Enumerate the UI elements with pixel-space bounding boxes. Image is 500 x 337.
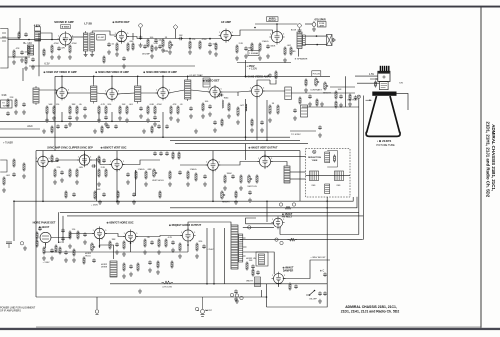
wire w h sig3 xyxy=(136,236,183,237)
resistor R18 xyxy=(199,39,207,49)
wire w bus A xyxy=(60,211,359,213)
svg-text:5: 5 xyxy=(68,90,69,92)
wire w box right long v xyxy=(326,197,328,307)
caption line 1 xyxy=(345,305,397,309)
callout c fil2 xyxy=(292,203,295,206)
svg-text:5: 5 xyxy=(118,91,119,93)
svg-text:1: 1 xyxy=(219,32,220,34)
capacitor C1x1 xyxy=(143,44,147,49)
ground G4j xyxy=(122,274,126,278)
svg-text:5: 5 xyxy=(127,33,128,35)
svg-text:6.3V: 6.3V xyxy=(44,62,50,66)
ground G1x1 xyxy=(150,54,154,58)
resistor R3f xyxy=(135,169,145,179)
resistor R15 xyxy=(162,37,168,47)
svg-text:DRIVE: DRIVE xyxy=(101,267,108,269)
ground G4L2 xyxy=(72,258,76,262)
resistor R crt neck xyxy=(349,93,351,101)
svg-text:5: 5 xyxy=(283,34,284,36)
svg-text:21D1, 21H1, 21J1 and Radio Ch.: 21D1, 21H1, 21J1 and Radio Ch. 5D2 xyxy=(341,310,400,314)
ground Gsw2 xyxy=(234,297,238,301)
svg-text:ADMIRAL CHASSIS 21B1, 21C1,: ADMIRAL CHASSIS 21B1, 21C1, xyxy=(345,305,397,309)
value vlin xyxy=(246,258,256,260)
ground G3x3 xyxy=(234,200,238,204)
svg-text:1: 1 xyxy=(206,162,207,164)
wire w opt top xyxy=(305,23,312,25)
ground Gac1 xyxy=(318,299,322,303)
label horiz output xyxy=(169,224,202,227)
peaking coil box xyxy=(285,87,292,100)
ground G3x4 xyxy=(248,198,252,202)
svg-text:.01: .01 xyxy=(111,44,115,46)
value v250 row3 xyxy=(91,205,99,207)
capacitor C2x2 xyxy=(106,124,110,128)
svg-text:+ TUNER: + TUNER xyxy=(3,143,13,145)
ground G1L3 xyxy=(31,65,35,69)
svg-text:WIDTH: WIDTH xyxy=(246,281,253,283)
capacitor C2x0 xyxy=(56,124,60,128)
wire w va plate up xyxy=(257,80,270,85)
tube V2 ratio det xyxy=(114,29,129,43)
node d bus7 xyxy=(245,76,247,78)
svg-text:7: 7 xyxy=(267,167,268,169)
ground G4l xyxy=(138,289,142,293)
cap left edge xyxy=(6,242,12,248)
resistor Rfb1 xyxy=(246,260,253,270)
ground G3g xyxy=(168,182,172,186)
callout yoke callout M xyxy=(313,150,316,154)
resistor Rle2 xyxy=(13,158,15,167)
value vRED xyxy=(291,51,296,53)
node d1c xyxy=(189,38,191,40)
interlock boxed label xyxy=(318,22,327,28)
label l85 xyxy=(34,25,41,28)
svg-text:⊕ 6SN7GT VERT OSC: ⊕ 6SN7GT VERT OSC xyxy=(101,147,127,150)
resistor R4 xyxy=(28,45,30,54)
tube V18 horiz afc xyxy=(123,229,138,243)
capacitor C2c xyxy=(22,102,26,107)
wire w r3 drop3 xyxy=(212,170,214,201)
svg-text:+ 250V: + 250V xyxy=(207,249,215,251)
ground G13 xyxy=(258,56,262,60)
svg-text:AF AMP: AF AMP xyxy=(221,20,231,24)
wire w heater1 xyxy=(29,65,195,67)
tube V3 AF amp xyxy=(219,28,234,42)
wire w fb to hv2 xyxy=(246,223,275,225)
value v1x xyxy=(142,54,150,56)
ground G3j xyxy=(223,186,227,190)
svg-text:5: 5 xyxy=(123,161,124,163)
svg-text:SOUND IF AMP: SOUND IF AMP xyxy=(54,20,74,24)
svg-text:7: 7 xyxy=(165,98,166,100)
resistor R3x1 xyxy=(65,190,67,198)
wire w box bottom2 xyxy=(267,306,328,308)
wire w4x3 xyxy=(130,242,132,252)
resistor R3m xyxy=(256,174,258,183)
value v2a xyxy=(1,93,7,97)
svg-text:5: 5 xyxy=(284,275,285,277)
wire w fly verticals2 xyxy=(213,228,215,284)
svg-text:⊕ 6K6GT VERT OUTPUT: ⊕ 6K6GT VERT OUTPUT xyxy=(248,147,278,150)
wire w g19 xyxy=(189,39,191,41)
wire w left h38 xyxy=(0,37,20,39)
svg-text:5: 5 xyxy=(90,157,91,159)
node d3b xyxy=(116,201,118,203)
ground Gle3 xyxy=(98,200,102,204)
svg-text:M: M xyxy=(358,96,360,99)
potentiometer vert hold xyxy=(153,168,157,177)
capacitor Csc1 xyxy=(83,106,87,111)
wire w below opt xyxy=(298,49,300,57)
svg-text:VOL: VOL xyxy=(163,49,169,53)
resistor R26 xyxy=(290,46,292,55)
wire w t4 out xyxy=(141,92,158,94)
wire w row3 box left xyxy=(35,151,37,297)
label sync amp xyxy=(47,147,93,150)
resistor Rif33 xyxy=(177,104,183,114)
wire w3x5 xyxy=(264,151,266,157)
svg-text:7: 7 xyxy=(217,97,218,99)
ground G4d xyxy=(122,252,126,256)
capacitor C2x3 xyxy=(114,124,118,128)
svg-text:820: 820 xyxy=(199,241,203,243)
resistor R4c xyxy=(69,229,76,239)
resistor R1x3 xyxy=(215,42,217,50)
capacitor Cva2 xyxy=(293,108,297,113)
capacitor C1L2 xyxy=(31,57,35,62)
wire w r3 drop2 xyxy=(116,169,118,201)
svg-text:HOLD: HOLD xyxy=(85,256,91,258)
svg-text:2.2K: 2.2K xyxy=(239,43,244,45)
value v4L xyxy=(58,241,63,244)
svg-text:DEFLECTION: DEFLECTION xyxy=(308,157,321,159)
value crt val1 xyxy=(369,72,375,76)
resistor Rle3 xyxy=(23,162,25,171)
wire w bus A drop xyxy=(13,201,15,241)
wire w v5 plate xyxy=(67,92,90,94)
resistor R1L1 xyxy=(18,31,20,39)
ground G4b xyxy=(83,240,87,244)
ground G8 xyxy=(168,50,172,54)
transformer T1 sound takeoff xyxy=(83,21,92,53)
svg-text:68K: 68K xyxy=(248,48,252,50)
tube V6 2nd IF xyxy=(105,87,120,102)
svg-text:820: 820 xyxy=(108,104,112,106)
value v B+ xyxy=(23,41,32,45)
wire w v link2 xyxy=(266,201,268,222)
capacitor C9 xyxy=(107,42,115,47)
diode D1 xyxy=(217,93,223,96)
ground G t1b xyxy=(90,52,94,56)
svg-text:270: 270 xyxy=(192,39,196,41)
resistor R23 xyxy=(259,41,269,51)
ground G3b xyxy=(68,55,72,59)
ground G17 xyxy=(312,27,316,31)
wire w v7 plate xyxy=(168,90,184,93)
capacitor Cfb2 xyxy=(256,270,260,275)
wire w af in xyxy=(137,38,222,40)
wire w1x xyxy=(132,33,134,40)
wire w width drop xyxy=(260,290,262,297)
svg-text:47K: 47K xyxy=(16,48,20,50)
wire w3x3 xyxy=(116,151,118,161)
V1 boxed label xyxy=(61,25,71,29)
wire yoke left drop xyxy=(362,96,364,240)
ground G3x2 xyxy=(132,200,136,204)
value v2x1 xyxy=(189,74,203,77)
wire w t5 top xyxy=(187,76,189,78)
label af amp xyxy=(221,20,231,24)
wire w t4 top xyxy=(137,76,139,84)
wire w ac line xyxy=(110,283,328,285)
ground G3 xyxy=(57,55,61,59)
ground G1x3 xyxy=(122,64,126,68)
wire w vo plate xyxy=(271,162,287,167)
svg-text:⊕ 6SN7GT HORIZ OSC: ⊕ 6SN7GT HORIZ OSC xyxy=(106,221,133,224)
resistor R20 xyxy=(236,43,244,53)
wire w4 bus xyxy=(44,251,188,253)
svg-text:5: 5 xyxy=(221,89,222,91)
resistor R crtd xyxy=(375,80,377,87)
value vhh2 xyxy=(85,256,91,258)
callout c sw xyxy=(230,293,233,296)
ground G2x7 xyxy=(260,128,264,132)
svg-text:5: 5 xyxy=(263,88,264,90)
label hv rect2 xyxy=(282,216,293,219)
resistor R1x1 xyxy=(132,42,134,50)
capacitor C3a xyxy=(60,170,64,175)
resistor R4L3 xyxy=(83,256,85,264)
capacitor Csw xyxy=(234,289,238,294)
capacitor C16 xyxy=(178,35,183,40)
ground G crt neck xyxy=(348,102,352,106)
svg-text:4.5 MC: 4.5 MC xyxy=(98,37,105,39)
ground Gdet3 xyxy=(227,114,231,118)
wire w bus C xyxy=(170,197,357,208)
wire w hv drop xyxy=(279,227,281,235)
capacitor C4c xyxy=(83,232,87,237)
resistor R boost xyxy=(288,238,298,241)
svg-text:.047: .047 xyxy=(240,105,245,107)
node d bus4 xyxy=(93,76,95,78)
svg-text:VERT LIN: VERT LIN xyxy=(247,186,257,188)
wire w vdet down xyxy=(266,100,268,140)
wire ion trap drop xyxy=(358,98,360,234)
resistor R2x5 xyxy=(251,118,253,126)
label 3rd video if xyxy=(143,70,177,74)
potentiometer bright pot xyxy=(324,81,328,90)
resistor R3y2 xyxy=(98,155,100,163)
wire w det out xyxy=(127,37,137,39)
svg-text:5: 5 xyxy=(232,32,233,34)
wire w bus B xyxy=(67,215,363,217)
capacitor C3x3 xyxy=(248,190,252,195)
svg-text:7: 7 xyxy=(228,41,229,43)
capacitor C3y3 xyxy=(153,151,157,156)
label video amp xyxy=(245,75,270,79)
ground G t1 xyxy=(84,52,88,56)
resistor R4d xyxy=(77,230,79,239)
svg-text:• ⊕ 21XP4: • ⊕ 21XP4 xyxy=(377,139,392,143)
phono jack J1 xyxy=(95,310,99,315)
capacitor C3y1 xyxy=(55,157,59,162)
svg-text:7: 7 xyxy=(64,98,65,100)
svg-text:HORIZ LIN: HORIZ LIN xyxy=(246,258,256,260)
svg-text:5.6K: 5.6K xyxy=(154,43,159,45)
callout c hv1 xyxy=(275,238,278,241)
lin coil xyxy=(259,254,265,265)
tube V1 sound IF xyxy=(58,31,74,47)
page top border xyxy=(0,6,500,8)
ground G15 xyxy=(283,58,287,62)
svg-text:1: 1 xyxy=(115,33,116,35)
ground Gif5 xyxy=(97,118,101,122)
tube V14 vert output xyxy=(257,154,272,169)
wire w t3 out xyxy=(97,93,107,94)
svg-text:IN64: IN64 xyxy=(224,98,229,100)
svg-text:.05: .05 xyxy=(147,237,151,239)
svg-text:.002: .002 xyxy=(6,175,11,177)
value v1x2 xyxy=(44,62,50,66)
svg-text:5: 5 xyxy=(136,233,137,235)
wire w jack drop xyxy=(96,297,98,309)
svg-text:SYNC AMP SYNC CLIPPER SYNC: SYNC AMP SYNC CLIPPER SYNC SEP xyxy=(47,147,93,150)
ground G4k xyxy=(129,272,133,276)
wire w row1 grid xyxy=(40,33,52,40)
resistor R4e xyxy=(109,239,116,249)
svg-text:7: 7 xyxy=(119,170,120,172)
svg-text:CONTRAST: CONTRAST xyxy=(310,89,322,92)
resistor R3y1 xyxy=(51,154,53,162)
potentiometer height pot xyxy=(221,190,225,199)
ground G3b xyxy=(60,178,64,182)
wire to CRT grid xyxy=(355,75,378,77)
node d1e xyxy=(276,23,278,25)
svg-text:10K: 10K xyxy=(338,89,342,91)
schematic frame bottom edge xyxy=(36,326,481,328)
label vert output xyxy=(248,147,278,150)
node d bus3 xyxy=(162,76,164,78)
node d3f xyxy=(326,200,328,202)
value vheight xyxy=(222,202,231,204)
wire w crt cath net xyxy=(302,106,359,108)
test point TP1 xyxy=(138,23,143,28)
resistor Rdet1 xyxy=(202,101,209,111)
resistor Ryk1 xyxy=(334,154,336,162)
capacitor C3b xyxy=(91,164,96,168)
wire w agc drop4 xyxy=(46,113,48,121)
output transformer T2 xyxy=(297,32,305,49)
svg-text:DAMPER: DAMPER xyxy=(283,269,294,272)
capacitor C14 xyxy=(154,38,163,43)
ground G2x0 xyxy=(42,129,46,133)
resistor R1x2 xyxy=(151,43,159,52)
svg-text:7: 7 xyxy=(279,43,280,45)
ground Gif11 xyxy=(169,116,173,120)
transformer T4 2nd IFT xyxy=(135,84,141,104)
resistor Rdet3 xyxy=(237,105,245,116)
resistor R3l xyxy=(240,174,242,183)
capacitor C2x1 xyxy=(64,124,68,128)
svg-text:1: 1 xyxy=(110,161,111,163)
wire w v drop a xyxy=(245,99,247,140)
capacitor Cfb3 xyxy=(323,272,327,277)
node d2c xyxy=(162,136,164,138)
potentiometer contrast pot xyxy=(315,77,319,86)
svg-text:⊕ 6CB6 2ND VIDEO IF AMP: ⊕ 6CB6 2ND VIDEO IF AMP xyxy=(95,70,129,74)
svg-text:+ 250V: + 250V xyxy=(247,65,255,68)
svg-text:1 500MA: 1 500MA xyxy=(249,52,258,55)
callout c fb2 xyxy=(240,296,243,299)
capacitor C1L1 xyxy=(24,32,28,37)
label 12au7 xyxy=(39,226,50,229)
ground G6 xyxy=(139,43,143,47)
wire w v6 plate xyxy=(117,93,134,94)
svg-text:⊕ 6BQ6GT HORIZ OUTPUT: ⊕ 6BQ6GT HORIZ OUTPUT xyxy=(169,224,202,227)
resistor R1L3 xyxy=(43,48,45,56)
svg-text:7: 7 xyxy=(215,170,216,172)
wire w v19 plate xyxy=(188,222,231,230)
resistor R4x5 xyxy=(157,260,159,268)
resistor Rif20 xyxy=(98,104,106,114)
node d2d xyxy=(245,136,247,138)
resistor R crtc xyxy=(316,98,318,106)
node d4a xyxy=(99,245,101,247)
wire w spk1 xyxy=(305,35,326,37)
svg-text:47Ω SPKR: 47Ω SPKR xyxy=(314,19,326,22)
svg-text:BRIGHT: BRIGHT xyxy=(323,93,332,95)
resistor R2x2 xyxy=(101,125,103,133)
wire w row3 box top xyxy=(36,150,300,152)
tube V16 phase det xyxy=(40,232,51,245)
flyback transformer T7 xyxy=(231,225,247,269)
resistor R3i xyxy=(187,169,197,179)
CRT arrow lead xyxy=(370,78,378,80)
fuse symbol xyxy=(312,21,316,27)
ground Gdet1 xyxy=(201,114,205,118)
capacitor C4f xyxy=(171,240,175,245)
capacitor C1x3 xyxy=(122,56,126,61)
svg-text:68K: 68K xyxy=(148,169,152,171)
capacitor Csc3 xyxy=(189,106,193,111)
node d2a xyxy=(61,121,63,123)
resistor R4a xyxy=(36,231,38,239)
svg-text:L7-28: L7-28 xyxy=(84,21,92,25)
node spk j2 xyxy=(316,44,318,46)
resistor R22 xyxy=(251,42,253,51)
svg-text:⊕ 12AU7: ⊕ 12AU7 xyxy=(39,226,50,229)
capacitor C3 xyxy=(20,50,28,55)
node spk j1 xyxy=(316,35,318,37)
wire w g20 xyxy=(209,39,211,41)
resistor Rif22 xyxy=(119,104,126,114)
svg-text:7: 7 xyxy=(67,45,68,47)
tube V21 damper xyxy=(272,272,286,286)
AC plug P1 xyxy=(197,297,208,316)
svg-text:+ 385V BOOST: + 385V BOOST xyxy=(310,257,326,259)
vertical title line 2 xyxy=(486,122,491,198)
ground Gva2 xyxy=(293,116,297,120)
resistor Rva3 xyxy=(277,104,279,114)
resistor R3x3 xyxy=(159,190,161,198)
capacitor Cle2 xyxy=(102,192,106,197)
svg-text:120: 120 xyxy=(72,229,76,231)
node d1d xyxy=(209,38,211,40)
ground Gif12 xyxy=(176,118,180,122)
label vert osc xyxy=(101,147,127,150)
capacitor Cif2 xyxy=(104,115,108,120)
wire w hv line xyxy=(280,234,359,236)
